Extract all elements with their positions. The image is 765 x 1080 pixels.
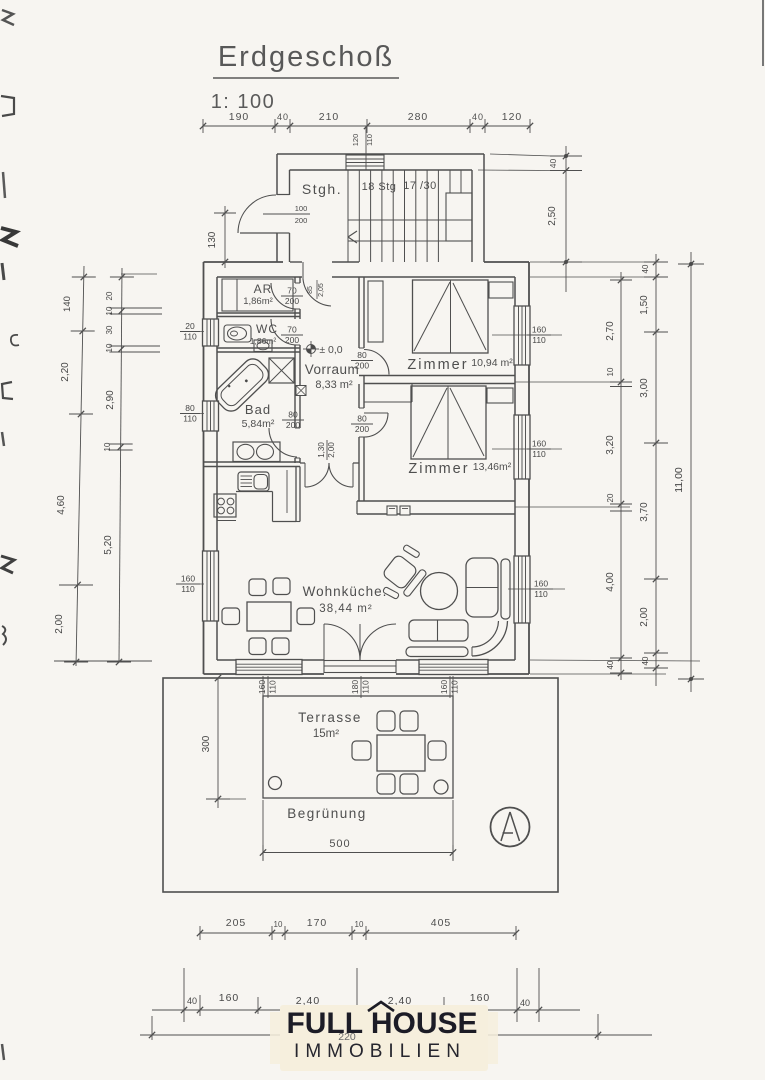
svg-text:10: 10 xyxy=(105,306,114,315)
svg-text:38,44 m²: 38,44 m² xyxy=(319,603,372,615)
svg-text:18 Stg: 18 Stg xyxy=(362,181,397,193)
svg-text:1: 100: 1: 100 xyxy=(211,91,276,113)
svg-text:40: 40 xyxy=(472,112,484,122)
svg-text:110: 110 xyxy=(534,589,548,599)
svg-text:110: 110 xyxy=(183,414,197,424)
svg-text:2,50: 2,50 xyxy=(547,206,558,226)
svg-text:10: 10 xyxy=(105,343,114,352)
svg-text:Stgh.: Stgh. xyxy=(302,181,342,197)
svg-text:120: 120 xyxy=(502,111,523,123)
svg-text:110: 110 xyxy=(361,680,371,694)
svg-text:3,70: 3,70 xyxy=(639,502,650,522)
svg-text:Terrasse: Terrasse xyxy=(298,710,362,725)
svg-text:405: 405 xyxy=(431,917,452,929)
svg-text:70: 70 xyxy=(287,286,297,296)
svg-text:20: 20 xyxy=(105,291,114,300)
svg-text:20: 20 xyxy=(185,321,195,331)
svg-text:200: 200 xyxy=(355,424,369,434)
svg-text:85: 85 xyxy=(307,286,314,294)
svg-text:30: 30 xyxy=(105,325,114,334)
svg-text:4,00: 4,00 xyxy=(605,572,616,592)
svg-text:10: 10 xyxy=(606,367,615,376)
svg-text:160: 160 xyxy=(439,680,449,694)
svg-text:1,86m²: 1,86m² xyxy=(250,336,277,346)
svg-text:200: 200 xyxy=(295,216,308,225)
svg-text:140: 140 xyxy=(62,296,73,312)
svg-text:Zimmer: Zimmer xyxy=(407,357,468,373)
svg-text:2,70: 2,70 xyxy=(605,321,616,341)
svg-text:110: 110 xyxy=(181,584,195,594)
svg-text:Begrünung: Begrünung xyxy=(287,806,367,821)
svg-text:40: 40 xyxy=(277,112,289,122)
svg-text:8,33 m²: 8,33 m² xyxy=(315,379,353,391)
svg-text:5,20: 5,20 xyxy=(103,535,114,555)
svg-text:AR: AR xyxy=(254,282,273,296)
svg-text:190: 190 xyxy=(229,111,250,123)
svg-text:4,60: 4,60 xyxy=(56,495,67,515)
svg-text:17 /30: 17 /30 xyxy=(403,180,437,192)
svg-text:110: 110 xyxy=(365,134,374,146)
svg-text:160: 160 xyxy=(219,992,240,1004)
svg-text:80: 80 xyxy=(357,350,367,360)
svg-text:2,00: 2,00 xyxy=(54,614,65,634)
svg-text:2,05: 2,05 xyxy=(318,283,325,297)
svg-text:110: 110 xyxy=(183,332,197,342)
svg-text:1,50: 1,50 xyxy=(639,295,650,315)
svg-text:170: 170 xyxy=(307,917,328,929)
svg-text:3,00: 3,00 xyxy=(639,378,650,398)
svg-text:130: 130 xyxy=(207,231,218,248)
svg-text:160: 160 xyxy=(470,992,491,1004)
svg-text:FULL HOUSE: FULL HOUSE xyxy=(286,1007,477,1040)
svg-text:Bad: Bad xyxy=(245,402,271,417)
svg-text:1,86m²: 1,86m² xyxy=(243,296,273,307)
svg-text:500: 500 xyxy=(329,838,350,850)
svg-text:80: 80 xyxy=(288,410,298,420)
svg-text:40: 40 xyxy=(520,998,530,1008)
svg-text:110: 110 xyxy=(532,449,546,459)
svg-text:120: 120 xyxy=(351,134,360,147)
svg-text:2,00: 2,00 xyxy=(639,607,650,627)
svg-text:40: 40 xyxy=(606,660,615,669)
svg-text:Erdgeschoß: Erdgeschoß xyxy=(218,41,394,73)
svg-text:160: 160 xyxy=(532,439,546,449)
svg-text:160: 160 xyxy=(257,680,267,694)
svg-text:40: 40 xyxy=(641,264,650,273)
svg-text:110: 110 xyxy=(532,335,546,345)
svg-text:205: 205 xyxy=(226,917,247,929)
svg-text:Wohnküche.: Wohnküche. xyxy=(303,584,388,599)
svg-text:280: 280 xyxy=(408,111,429,123)
svg-text:10: 10 xyxy=(274,920,283,929)
svg-text:10: 10 xyxy=(355,920,364,929)
svg-text:11,00: 11,00 xyxy=(673,467,685,493)
svg-text:5,84m²: 5,84m² xyxy=(242,418,275,430)
svg-text:110: 110 xyxy=(450,680,460,694)
svg-text:80: 80 xyxy=(357,414,367,424)
svg-text:2,90: 2,90 xyxy=(105,390,116,410)
svg-text:200: 200 xyxy=(286,420,300,430)
svg-text:80: 80 xyxy=(185,403,195,413)
svg-text:± 0,0: ± 0,0 xyxy=(319,344,342,356)
svg-text:300: 300 xyxy=(201,735,212,752)
svg-text:Zimmer: Zimmer xyxy=(408,461,469,477)
svg-text:10,94 m²: 10,94 m² xyxy=(471,357,513,369)
svg-text:160: 160 xyxy=(534,579,548,589)
svg-text:70: 70 xyxy=(287,325,297,335)
svg-text:40: 40 xyxy=(187,996,197,1006)
svg-text:2,20: 2,20 xyxy=(60,362,71,382)
svg-text:15m²: 15m² xyxy=(313,728,339,740)
svg-text:200: 200 xyxy=(285,335,299,345)
svg-text:IMMOBILIEN: IMMOBILIEN xyxy=(294,1041,466,1062)
svg-text:1,30: 1,30 xyxy=(317,442,326,458)
svg-text:Vorraum: Vorraum xyxy=(305,362,360,377)
svg-text:WC: WC xyxy=(256,322,278,336)
svg-text:180: 180 xyxy=(350,680,360,694)
svg-text:2,00: 2,00 xyxy=(327,442,336,458)
svg-text:20: 20 xyxy=(606,493,615,502)
svg-text:10: 10 xyxy=(103,442,112,451)
svg-text:110: 110 xyxy=(268,680,278,694)
svg-text:200: 200 xyxy=(285,296,299,306)
svg-text:3,20: 3,20 xyxy=(605,435,616,455)
svg-text:100: 100 xyxy=(295,204,308,213)
svg-text:13,46m²: 13,46m² xyxy=(473,461,512,473)
svg-text:210: 210 xyxy=(319,111,340,123)
svg-text:160: 160 xyxy=(532,325,546,335)
svg-text:160: 160 xyxy=(181,574,195,584)
svg-text:40: 40 xyxy=(548,159,558,169)
